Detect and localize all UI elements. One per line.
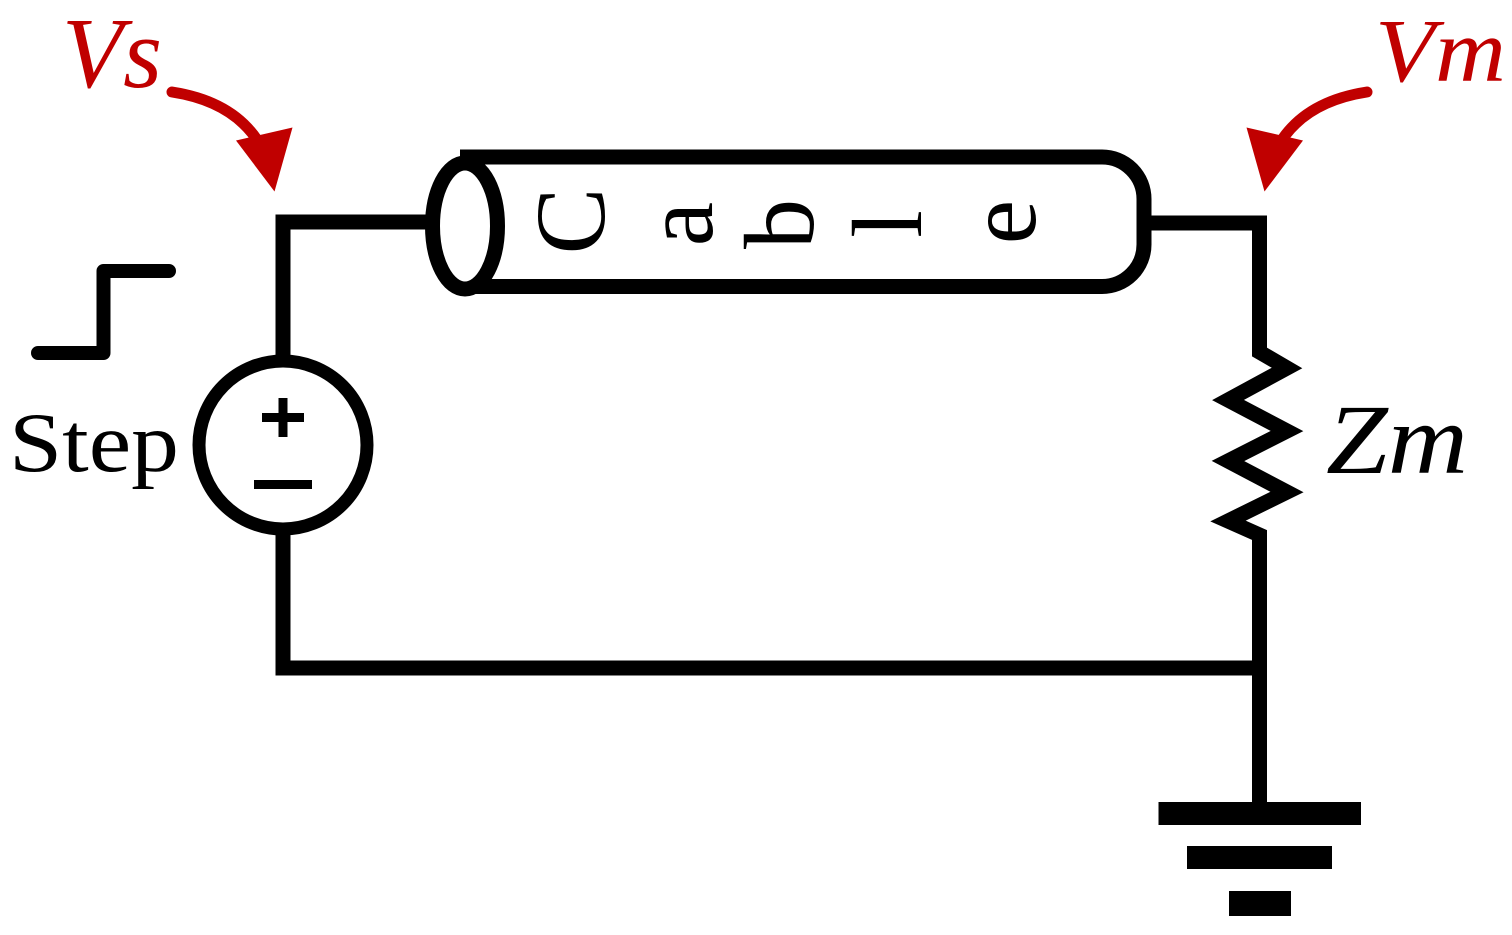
svg-text:a: a	[623, 202, 734, 246]
svg-text:Vs: Vs	[62, 0, 162, 109]
svg-text:l: l	[832, 210, 943, 238]
svg-text:C: C	[515, 188, 626, 255]
svg-text:Step: Step	[9, 396, 179, 490]
svg-text:b: b	[724, 199, 835, 249]
svg-text:e: e	[946, 200, 1057, 244]
svg-text:Vm: Vm	[1375, 2, 1506, 101]
svg-text:Zm: Zm	[1326, 384, 1468, 495]
